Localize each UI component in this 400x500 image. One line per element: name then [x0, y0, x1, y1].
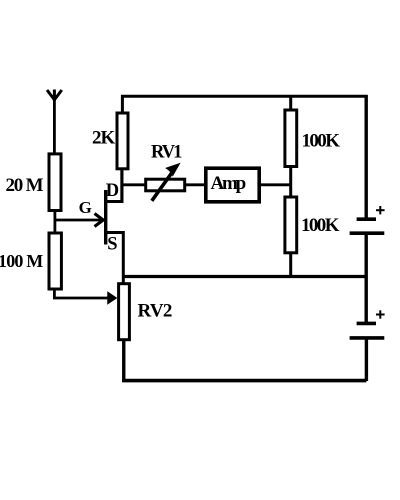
- variable resistor RV1 body: [146, 179, 185, 191]
- resistor 20M body: [49, 154, 61, 211]
- label + B2: [376, 310, 385, 318]
- wire gate with arrowhead: [54, 214, 103, 227]
- wire between batteries: [365, 233, 368, 323]
- wire mid rail: [122, 275, 366, 278]
- RV1 arrow: [152, 164, 180, 201]
- wire drain junction to RV1: [121, 183, 145, 186]
- wire source: [106, 233, 124, 284]
- svg-text:G: G: [79, 198, 92, 217]
- svg-text:20 M: 20 M: [6, 175, 44, 196]
- wire RV2 bottom: [122, 340, 125, 382]
- svg-text:RV1: RV1: [151, 143, 182, 163]
- wire Amp to divider junction: [259, 183, 292, 186]
- svg-text:2K: 2K: [92, 128, 116, 149]
- amplifier Amp box: [206, 168, 259, 202]
- wire 100K top stub: [289, 95, 292, 110]
- wire drain: [106, 169, 122, 202]
- svg-text:Amp: Amp: [211, 173, 246, 194]
- antenna: [47, 90, 62, 102]
- resistor 2K body: [117, 113, 128, 169]
- resistor 100M body: [49, 233, 61, 289]
- wire below lower 100K: [289, 253, 292, 276]
- svg-text:RV2: RV2: [138, 301, 172, 322]
- resistor 100K upper body: [285, 110, 297, 167]
- battery B2: [350, 323, 385, 338]
- wire 2K top stub: [121, 95, 124, 114]
- svg-text:100K: 100K: [302, 131, 341, 152]
- svg-text:100 M: 100 M: [0, 251, 43, 271]
- svg-text:D: D: [106, 181, 119, 201]
- resistor 100K lower body: [285, 197, 297, 253]
- svg-text:S: S: [107, 234, 117, 254]
- wire 20M to 100M: [54, 211, 57, 233]
- wire below battery B2: [365, 338, 368, 381]
- wire bottom rail: [122, 379, 366, 383]
- label + B1: [376, 206, 385, 214]
- wire top rail: [121, 95, 368, 98]
- wire right rail top: [365, 95, 368, 219]
- battery B1: [350, 219, 385, 233]
- variable resistor RV2 body: [119, 284, 130, 340]
- wire antenna to 20M: [53, 99, 56, 153]
- wire 100M to RV2 with arrowhead: [54, 289, 116, 303]
- wire RV1 to Amp: [184, 183, 206, 186]
- wire 2K bottom to drain junction: [120, 168, 123, 203]
- wire between 100K resistors: [289, 167, 292, 198]
- transistor Q1 JFET bar: [104, 190, 107, 245]
- svg-text:100K: 100K: [301, 215, 340, 236]
